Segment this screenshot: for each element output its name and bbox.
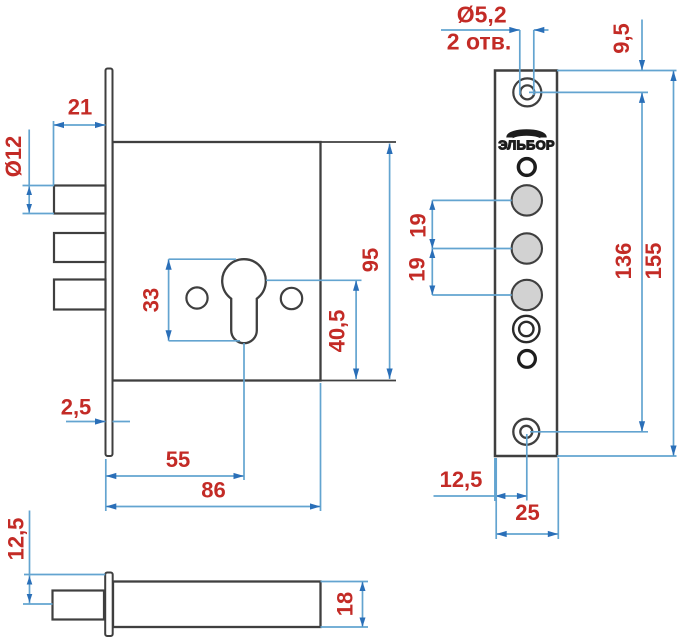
svg-text:155: 155	[641, 243, 666, 280]
svg-text:12,5: 12,5	[440, 467, 483, 492]
svg-text:21: 21	[68, 94, 92, 119]
svg-text:Ø5,2: Ø5,2	[457, 2, 507, 28]
svg-text:19: 19	[405, 213, 430, 237]
svg-text:55: 55	[166, 447, 190, 472]
svg-text:40,5: 40,5	[325, 310, 350, 353]
svg-text:12,5: 12,5	[3, 518, 28, 561]
svg-text:86: 86	[201, 477, 225, 502]
svg-text:33: 33	[138, 288, 163, 312]
svg-text:19: 19	[404, 257, 429, 281]
svg-text:18: 18	[332, 592, 357, 616]
svg-text:25: 25	[515, 500, 539, 525]
svg-text:95: 95	[358, 248, 383, 272]
svg-text:2 отв.: 2 отв.	[447, 29, 511, 55]
svg-text:Ø12: Ø12	[1, 136, 26, 178]
svg-text:9,5: 9,5	[609, 23, 634, 54]
svg-text:2,5: 2,5	[61, 394, 92, 419]
svg-text:ЭЛЬБОР: ЭЛЬБОР	[498, 138, 555, 153]
svg-text:136: 136	[611, 243, 636, 280]
